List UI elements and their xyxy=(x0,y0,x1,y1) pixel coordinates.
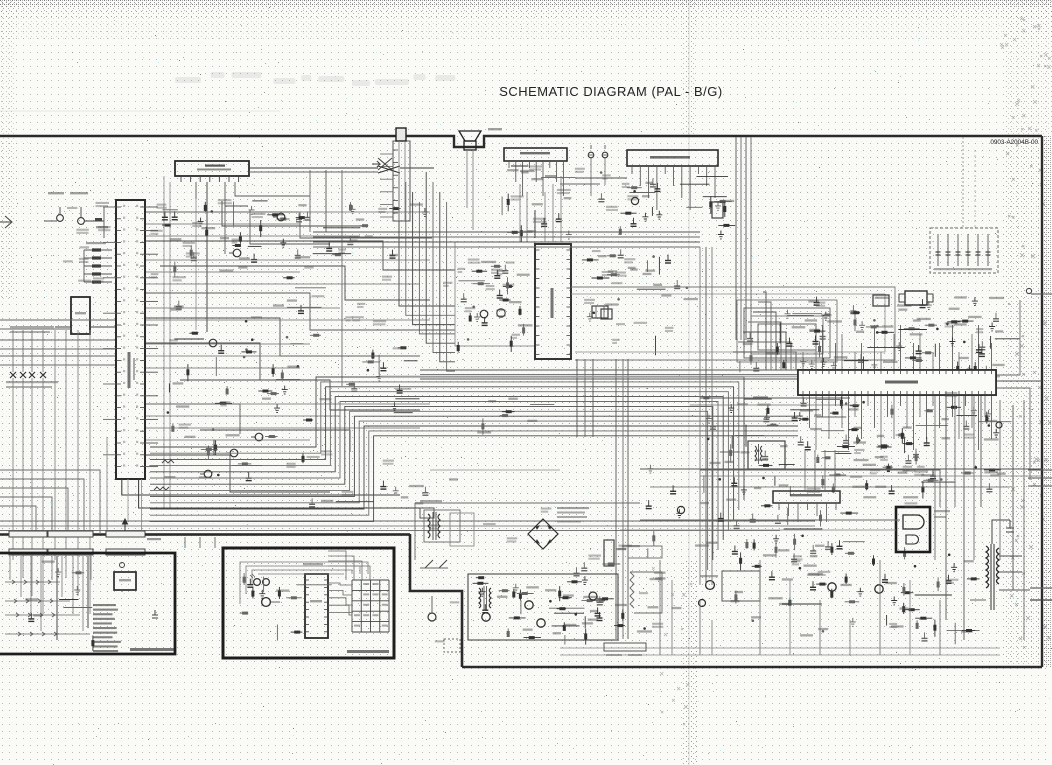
capacitor xyxy=(720,513,722,519)
reference designator label xyxy=(304,267,313,269)
wire xyxy=(787,315,814,317)
value label xyxy=(779,603,789,605)
reference designator label xyxy=(584,299,595,301)
wire row right lower a xyxy=(640,468,1042,470)
reference designator label xyxy=(373,320,386,322)
capacitor xyxy=(349,236,351,242)
capacitor xyxy=(907,455,909,461)
wire xyxy=(995,338,1020,340)
value label xyxy=(449,478,458,480)
value label xyxy=(520,170,534,172)
control connector box P101 border xyxy=(0,553,175,654)
value label xyxy=(226,434,240,436)
resistor xyxy=(924,410,932,412)
resistor xyxy=(472,283,490,285)
junction xyxy=(963,341,966,344)
reference designator label xyxy=(880,456,888,458)
left edge wire bus 2 xyxy=(0,328,71,330)
capacitor xyxy=(764,451,766,457)
resistor xyxy=(72,572,84,574)
value label xyxy=(415,502,423,504)
nested corner wires lower-left xyxy=(0,470,100,534)
caps row below staircase xyxy=(309,478,458,507)
transistor Q301 chroma xyxy=(480,310,488,318)
IF connector pins xyxy=(380,150,398,217)
tuner pins xyxy=(181,176,239,182)
value label xyxy=(25,598,38,600)
wire xyxy=(215,357,217,376)
value label xyxy=(608,270,617,272)
bus wire 1 xyxy=(313,231,700,233)
resistor xyxy=(276,218,289,220)
wire xyxy=(745,425,747,447)
wire xyxy=(276,625,278,641)
resistor xyxy=(922,352,932,354)
IC602 label xyxy=(650,156,690,159)
reference designator label xyxy=(150,230,162,232)
reference designator label xyxy=(793,555,802,557)
sync separator parts left of IC901 xyxy=(740,310,822,373)
resistor xyxy=(922,481,924,498)
main filter cap C805 xyxy=(604,540,626,566)
ground xyxy=(582,576,588,584)
value label xyxy=(661,294,671,296)
resistor xyxy=(389,208,400,210)
gray shadow line above bundle xyxy=(380,376,1000,378)
wire xyxy=(290,343,303,345)
value label xyxy=(598,255,607,257)
wire xyxy=(821,430,844,432)
value label xyxy=(509,301,521,303)
vertical channel wire 3 xyxy=(954,395,956,507)
reference designator label xyxy=(93,277,104,279)
reference designator label xyxy=(622,183,630,185)
frame lower-left step border xyxy=(410,534,462,667)
cap C101 xyxy=(152,610,161,618)
wire xyxy=(954,623,956,645)
reference designator label xyxy=(533,218,546,220)
resistor xyxy=(832,484,834,494)
reference designator label xyxy=(627,195,638,197)
value label xyxy=(913,319,921,321)
resistor xyxy=(653,531,655,546)
control box wire grid with arrows xyxy=(5,580,90,636)
reference designator label xyxy=(914,471,928,473)
wire row right upper a xyxy=(700,397,850,399)
capacitor xyxy=(981,341,983,347)
value label xyxy=(792,326,806,328)
resistor xyxy=(469,313,471,322)
B+ feed wire xyxy=(640,519,900,521)
capacitor xyxy=(300,305,302,311)
resistor xyxy=(810,330,826,332)
capacitor xyxy=(504,265,506,271)
value label xyxy=(526,586,539,588)
value label xyxy=(808,300,819,302)
value label xyxy=(173,382,184,384)
reference designator label xyxy=(807,488,821,490)
reference designator label xyxy=(352,316,364,318)
error amp Q802 xyxy=(525,601,533,609)
ground xyxy=(55,568,61,576)
resistor xyxy=(700,397,711,399)
transistor Q904 xyxy=(875,585,883,593)
resistor xyxy=(903,603,905,614)
resistor xyxy=(794,534,796,550)
vertical wires audio to chroma xyxy=(520,176,561,242)
wire xyxy=(233,202,235,227)
reference designator label xyxy=(491,269,502,271)
resistor xyxy=(359,225,368,227)
vertical wire to ground bus 11 xyxy=(939,600,941,655)
resistor xyxy=(267,393,279,395)
value label xyxy=(898,309,907,311)
value label xyxy=(201,227,215,229)
diode row D201-D204 band switching xyxy=(6,330,58,388)
IC151 pin ticks xyxy=(305,580,328,632)
resistor xyxy=(877,446,892,448)
capacitor xyxy=(860,354,862,360)
vertical wire chroma to power 3 xyxy=(627,359,629,639)
value label xyxy=(709,462,720,464)
vertical channel wire 6 xyxy=(980,395,982,507)
value label xyxy=(816,305,825,307)
junction xyxy=(757,449,760,452)
value label xyxy=(903,496,918,498)
value label xyxy=(891,625,904,627)
value label xyxy=(239,257,250,259)
resistor xyxy=(398,347,406,349)
resistor xyxy=(232,245,240,247)
ceramic filter CF301 xyxy=(592,306,608,318)
wire xyxy=(232,465,262,467)
loop wire around chroma xyxy=(571,287,895,360)
capacitor xyxy=(891,485,893,491)
tuner drop wire t3 xyxy=(341,170,343,386)
resistor xyxy=(500,415,508,417)
capacitor xyxy=(712,421,714,427)
wire xyxy=(276,379,300,381)
tuner drop wire t2 xyxy=(325,170,327,232)
routed wire 1 xyxy=(146,212,432,238)
capacitor xyxy=(978,344,980,350)
nested loop rectangle 3 xyxy=(751,316,823,354)
value label xyxy=(827,320,842,322)
value label xyxy=(818,574,826,576)
capacitor xyxy=(922,299,924,305)
reference designator label xyxy=(435,640,445,642)
value label xyxy=(96,205,109,207)
transistor Q201 / Q202 RF cluster xyxy=(44,192,108,238)
junction xyxy=(927,409,930,412)
ground xyxy=(282,386,288,394)
reference designator label xyxy=(345,316,353,318)
resistor xyxy=(887,464,889,472)
reference designator label xyxy=(357,303,365,305)
resistor xyxy=(207,446,209,460)
wire bundle line 8 xyxy=(150,411,708,570)
value label xyxy=(590,610,598,612)
IC151 label xyxy=(310,600,322,602)
audio takeoff components xyxy=(545,175,627,184)
wire xyxy=(844,360,869,362)
ground xyxy=(74,586,80,594)
wire xyxy=(252,200,267,202)
capacitor xyxy=(248,472,250,478)
value label xyxy=(588,558,599,560)
IC901 to H-drive wire 1 xyxy=(804,450,806,491)
IC501 pin stub wires xyxy=(103,207,158,467)
value label xyxy=(889,626,897,628)
reference designator label xyxy=(307,456,320,458)
resistor xyxy=(831,589,833,599)
capacitor xyxy=(924,632,926,638)
capacitor xyxy=(733,477,735,483)
power supply dashed outline xyxy=(415,503,640,560)
value label xyxy=(602,178,607,180)
resistor xyxy=(240,612,248,614)
wire xyxy=(789,486,791,496)
AC inlet dashed box xyxy=(444,639,460,652)
nested corner wire 7 xyxy=(763,292,766,370)
ground xyxy=(859,321,865,329)
resistor xyxy=(252,587,254,598)
junction xyxy=(876,325,879,328)
value label xyxy=(199,476,212,478)
value label xyxy=(602,274,612,276)
wire xyxy=(744,398,772,400)
resistor xyxy=(201,448,218,450)
bus wire 4 xyxy=(313,246,700,248)
ground xyxy=(642,213,648,221)
nested wires right of IC901 xyxy=(996,300,1030,480)
reference designator label xyxy=(173,276,186,278)
junction xyxy=(243,356,246,359)
resistor xyxy=(190,246,192,259)
routed wire 9 xyxy=(180,380,420,410)
parts right of H-drive xyxy=(843,427,938,499)
value label xyxy=(533,221,547,223)
CRT socket labels xyxy=(934,510,950,512)
vertical wire to ground bus 5 xyxy=(759,560,761,655)
resistor xyxy=(520,225,522,242)
resistor xyxy=(283,277,295,279)
resistor xyxy=(242,351,257,353)
value label xyxy=(557,192,570,194)
vertical trunk wire 4 xyxy=(750,137,752,340)
resistor xyxy=(238,463,251,465)
capacitor xyxy=(827,541,829,547)
resistor xyxy=(162,224,171,226)
junction xyxy=(707,438,710,441)
capacitor xyxy=(599,612,601,618)
left edge wire bus 1 xyxy=(0,319,116,321)
wire bundle line 1 xyxy=(150,377,744,500)
value label xyxy=(955,323,967,325)
resistor xyxy=(607,255,616,257)
reference designator label xyxy=(854,449,864,451)
resistor xyxy=(822,457,830,459)
IC501 bottom gray drop 3 xyxy=(127,479,129,521)
ground xyxy=(647,465,653,473)
value label xyxy=(219,269,233,271)
value label xyxy=(262,398,271,400)
value label xyxy=(885,582,896,584)
resistor xyxy=(310,334,321,336)
speaker label xyxy=(488,128,502,130)
reference designator label xyxy=(186,252,200,254)
resistor xyxy=(372,350,374,360)
value label xyxy=(458,271,463,273)
connector inner wire pair xyxy=(398,141,400,221)
reference designator label xyxy=(870,469,881,471)
capacitor xyxy=(583,562,585,568)
transistor Q803 xyxy=(589,592,597,600)
value label xyxy=(553,632,561,634)
IC901 pin ticks xyxy=(803,370,992,395)
ground xyxy=(676,509,682,517)
value label xyxy=(875,297,889,299)
value label xyxy=(807,491,821,493)
resistor xyxy=(903,443,914,445)
value label xyxy=(532,203,543,205)
value label xyxy=(653,284,662,286)
resistor xyxy=(585,629,587,645)
chroma decoder box outline xyxy=(455,242,535,346)
reference designator label xyxy=(964,434,974,436)
capacitor xyxy=(734,546,736,552)
wire xyxy=(520,600,522,614)
value label xyxy=(409,485,424,487)
junction xyxy=(873,319,876,322)
resistor xyxy=(840,512,858,514)
resistor xyxy=(491,265,502,267)
resistor xyxy=(499,590,510,592)
front panel misc parts xyxy=(240,573,332,641)
value label xyxy=(350,239,358,241)
tuner pin drop wire 2 xyxy=(224,206,226,254)
junction xyxy=(822,630,825,633)
reference designator label xyxy=(157,204,167,206)
value label xyxy=(942,437,951,439)
waterfall wire 6 xyxy=(433,182,455,353)
capacitor xyxy=(965,421,967,427)
IC501 pin ticks xyxy=(116,205,145,467)
transistor Q302 xyxy=(255,433,263,441)
value label xyxy=(151,276,156,278)
vertical channel wire 7 xyxy=(999,400,1001,560)
capacitor xyxy=(499,290,501,296)
capacitor xyxy=(672,485,674,491)
capacitor xyxy=(932,470,934,476)
resistor xyxy=(850,312,860,314)
resistor xyxy=(925,324,937,326)
sound IF components below IC602 xyxy=(598,171,735,239)
capacitor xyxy=(656,183,658,189)
reference designator label xyxy=(624,258,635,260)
wire VR stems xyxy=(590,158,592,196)
resistor xyxy=(510,336,512,352)
resistor xyxy=(472,270,487,272)
nested corner wire 3 xyxy=(743,332,786,370)
IF shield box dashed xyxy=(930,228,998,273)
value label xyxy=(465,310,472,312)
wire tuner to crossover xyxy=(249,167,378,169)
antenna input arrow xyxy=(0,216,12,228)
reference designator label xyxy=(945,392,958,394)
resistor xyxy=(840,396,842,408)
resistor xyxy=(837,446,855,448)
reference designator label xyxy=(945,322,958,324)
junction xyxy=(946,323,949,326)
value label xyxy=(273,304,284,306)
value label xyxy=(854,459,869,461)
crossover twisted pair X xyxy=(378,166,400,173)
value label xyxy=(596,601,604,603)
value label xyxy=(804,565,817,567)
value label xyxy=(903,426,912,428)
wire row right lower b xyxy=(700,475,1042,477)
resistor xyxy=(891,405,893,419)
capacitor xyxy=(298,213,300,219)
tuner supply vertical wire 1 xyxy=(163,176,165,508)
value label xyxy=(430,528,437,530)
wire xyxy=(782,603,822,605)
resistor xyxy=(904,328,920,330)
value label xyxy=(910,333,923,335)
speaker SP601 cone xyxy=(459,131,481,141)
rectifier input box xyxy=(450,513,474,546)
value label xyxy=(352,319,360,321)
capacitor xyxy=(599,596,601,602)
ground xyxy=(785,310,791,318)
value label xyxy=(882,325,894,327)
reference designator label xyxy=(541,508,552,510)
resistor xyxy=(473,582,489,584)
wire xyxy=(395,388,411,390)
wire xyxy=(404,360,418,362)
value label xyxy=(755,459,769,461)
ground xyxy=(350,205,356,213)
wire xyxy=(990,336,992,349)
value label xyxy=(725,461,734,463)
reference designator label xyxy=(465,307,476,309)
value label xyxy=(606,209,618,211)
wire bundle line 7 xyxy=(150,406,713,560)
junction xyxy=(801,535,804,538)
CRT socket box xyxy=(896,507,930,552)
left vertical wire bundle to control connector xyxy=(13,330,90,614)
value label xyxy=(642,195,650,197)
interconnect wire c xyxy=(0,530,780,532)
wire xyxy=(790,409,819,411)
value label xyxy=(410,203,423,205)
speaker wires xyxy=(466,150,468,208)
wire xyxy=(934,344,936,357)
reference designator label xyxy=(183,242,195,244)
IC901 to H-drive wire 4 xyxy=(834,450,836,491)
resistor xyxy=(499,299,510,301)
resistor xyxy=(934,620,936,637)
tuner label xyxy=(205,165,225,167)
reference designator label xyxy=(169,339,178,341)
nested corner wire 4 xyxy=(748,322,781,370)
vertical channel wire 9 xyxy=(1023,400,1025,640)
capacitor xyxy=(30,613,32,619)
wire xyxy=(59,599,78,601)
value label xyxy=(497,273,502,275)
resistor xyxy=(482,418,484,434)
